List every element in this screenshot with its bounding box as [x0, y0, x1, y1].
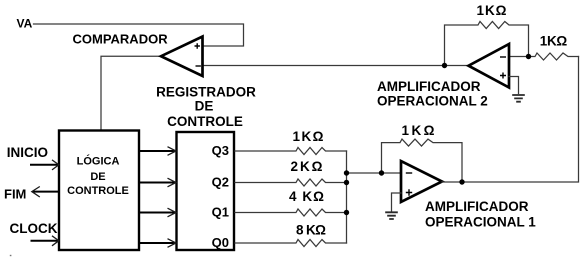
- op-amp U2 triangle: [469, 44, 510, 88]
- wire bus tap to op-amp1 - input: [347, 172, 402, 174]
- svg-text:INICIO: INICIO: [7, 145, 48, 160]
- speck artifact: [10, 255, 12, 256]
- svg-text:DE: DE: [90, 171, 105, 183]
- svg-text:OPERACIONAL 1: OPERACIONAL 1: [425, 215, 536, 230]
- wire op-amp1 + input to ground: [392, 193, 402, 211]
- svg-text:DE: DE: [195, 99, 214, 114]
- resistor 1K feedback op-amp2: [445, 22, 529, 66]
- svg-text:OPERACIONAL 2: OPERACIONAL 2: [377, 94, 488, 109]
- junction bus 2K: [344, 180, 349, 185]
- svg-text:CONTROLE: CONTROLE: [167, 114, 243, 129]
- svg-text:AMPLIFICADOR: AMPLIFICADOR: [377, 79, 481, 94]
- arrow INICIO input: [30, 164, 58, 166]
- wire VA to comparator + input: [34, 24, 244, 46]
- ground op-amp2: [512, 95, 525, 102]
- svg-text:8 KΩ: 8 KΩ: [296, 223, 326, 238]
- svg-text:CONTROLE: CONTROLE: [67, 185, 129, 197]
- svg-text:AMPLIFICADOR: AMPLIFICADOR: [425, 199, 529, 214]
- svg-text:4 KΩ: 4 KΩ: [289, 189, 324, 204]
- resistor 1K feedback op-amp1: [382, 139, 463, 182]
- comparator - pin mark: [196, 65, 201, 67]
- junction op-amp1 output feedback: [459, 179, 464, 184]
- resistor 1K op-amp2 input: [529, 53, 579, 60]
- svg-text:CLOCK: CLOCK: [10, 221, 58, 236]
- svg-text:COMPARADOR: COMPARADOR: [73, 32, 169, 47]
- wire op-amp1 output to right riser: [442, 57, 579, 183]
- logic control box: [59, 131, 139, 251]
- wire op-amp2 - input: [509, 56, 529, 58]
- junction op-amp2 - input: [526, 54, 531, 59]
- resistor 1K ladder wire Q3: [235, 148, 347, 155]
- junction op-amp2 feedback output: [442, 63, 447, 68]
- svg-text:1KΩ: 1KΩ: [540, 34, 568, 49]
- junction bus tap: [344, 170, 349, 175]
- comparator U1: [161, 37, 203, 77]
- wire op-amp2 output to comparator - input: [203, 65, 469, 67]
- op-amp2 + pin mark: [500, 73, 506, 79]
- svg-text:Q0: Q0: [212, 235, 229, 250]
- svg-text:LÓGICA: LÓGICA: [77, 155, 120, 168]
- arrow CLOCK input: [31, 240, 59, 242]
- op-amp1 + pin mark: [406, 189, 412, 195]
- arrow logic to register bit3: [140, 150, 175, 152]
- svg-text:Q2: Q2: [212, 175, 229, 190]
- arrow FIM output: [33, 191, 59, 193]
- ground op-amp1: [385, 212, 398, 219]
- arrow logic to register bit0: [140, 242, 175, 244]
- svg-text:1KΩ: 1KΩ: [402, 123, 435, 138]
- junction feedback left: [379, 170, 384, 175]
- svg-text:1KΩ: 1KΩ: [477, 3, 507, 18]
- op-amp2 - pin mark: [500, 56, 506, 58]
- arrow logic to register bit1: [140, 212, 175, 214]
- arrow logic to register bit2: [140, 182, 175, 184]
- comparator + pin mark: [195, 43, 200, 48]
- wire comparator output to logic box: [101, 56, 161, 129]
- wire op-amp2 + input to ground: [509, 77, 519, 94]
- resistor 2K ladder wire Q2: [235, 179, 347, 186]
- register box: [177, 132, 235, 250]
- resistor 8K ladder wire Q0: [235, 240, 347, 247]
- op-amp1 - pin mark: [406, 172, 412, 174]
- svg-text:FIM: FIM: [4, 186, 26, 201]
- svg-text:1KΩ: 1KΩ: [293, 129, 324, 144]
- svg-text:2KΩ: 2KΩ: [291, 159, 323, 174]
- svg-text:REGISTRADOR: REGISTRADOR: [156, 85, 256, 100]
- svg-text:Q3: Q3: [212, 143, 229, 158]
- summing bus: [346, 151, 348, 243]
- junction bus 4K: [344, 210, 349, 215]
- svg-text:VA: VA: [17, 17, 33, 31]
- resistor 4K ladder wire Q1: [235, 209, 347, 216]
- op-amp U1 triangle: [401, 161, 442, 202]
- svg-text:Q1: Q1: [212, 205, 229, 220]
